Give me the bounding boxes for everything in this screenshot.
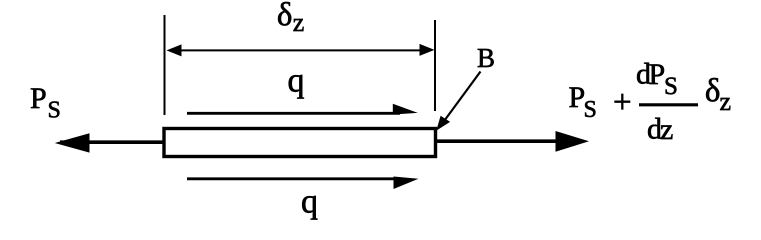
left extension line	[164, 15, 166, 115]
svg-text:z: z	[660, 113, 673, 146]
svg-text:z: z	[293, 8, 305, 37]
svg-text:S: S	[48, 98, 61, 124]
dimension line (double-headed arrow)	[167, 44, 435, 57]
pile element rectangle	[164, 129, 436, 157]
svg-text:δ: δ	[277, 0, 293, 33]
leader line to point B	[436, 72, 480, 131]
svg-text:P: P	[30, 82, 47, 115]
svg-text:P: P	[649, 58, 666, 91]
right extension line	[434, 20, 436, 111]
right axial force arrow	[436, 131, 589, 152]
top shear arrow q	[187, 104, 418, 115]
svg-text:z: z	[720, 87, 732, 116]
bottom shear arrow q	[187, 177, 419, 190]
svg-text:S: S	[664, 73, 678, 100]
svg-text:B: B	[477, 43, 495, 73]
svg-text:δ: δ	[705, 73, 721, 109]
svg-text:+: +	[613, 84, 632, 120]
dimension label δz	[277, 0, 304, 37]
svg-text:q: q	[301, 184, 318, 221]
svg-text:q: q	[288, 63, 305, 100]
label PS + dPS/dz δz (right)	[569, 58, 732, 146]
left axial force arrow PS	[55, 133, 163, 152]
label PS (left)	[30, 82, 61, 124]
svg-text:S: S	[584, 97, 597, 123]
